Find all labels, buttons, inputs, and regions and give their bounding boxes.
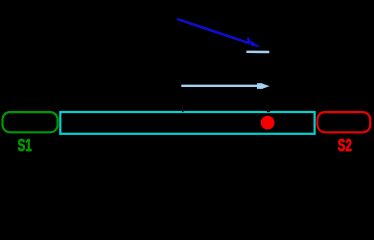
wire: short light blue segment	[246, 51, 269, 54]
node: small notch on tube top edge left	[182, 111, 183, 112]
node S2: red rounded box	[317, 112, 370, 132]
wire: steep tick at end of dark blue arrow	[248, 38, 250, 45]
node: small notch on tube top edge right	[267, 111, 270, 112]
node: light blue arrowhead	[257, 83, 263, 89]
svg-text:S1: S1	[18, 135, 33, 155]
wire: cyan tube rectangle	[60, 112, 314, 134]
wire: dark blue diagonal arrow shaft	[177, 19, 248, 43]
node: red dot particle	[261, 116, 275, 130]
node S1: green rounded box	[3, 112, 58, 132]
svg-text:S2: S2	[338, 135, 352, 155]
wire: long light blue arrow shaft	[181, 85, 262, 87]
node: dark blue arrowhead	[250, 40, 260, 47]
